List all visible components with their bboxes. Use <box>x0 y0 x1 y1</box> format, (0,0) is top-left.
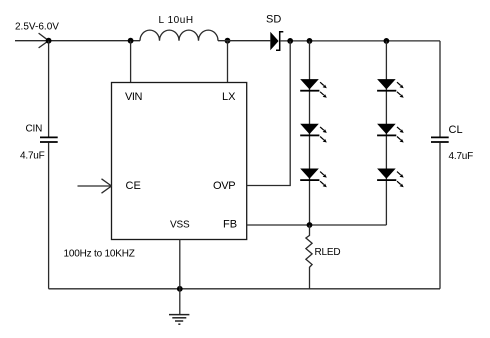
inductor L1 <box>140 30 218 41</box>
LED D1 <box>300 79 327 98</box>
diode SD <box>270 32 278 50</box>
ground <box>169 289 189 324</box>
wire VSS vertical <box>179 240 181 289</box>
svg-text:FB: FB <box>223 219 237 231</box>
svg-text:RLED: RLED <box>315 247 341 258</box>
wire top rail right <box>280 40 440 42</box>
svg-text:VIN: VIN <box>125 91 142 103</box>
node diode cathode junction <box>287 38 293 44</box>
CE arrow <box>102 179 112 193</box>
node LED string1 top junction <box>307 38 313 44</box>
svg-text:CE: CE <box>126 180 141 192</box>
node inductor right junction <box>225 38 231 44</box>
wire LX vertical <box>227 41 229 83</box>
wire right vertical upper <box>439 41 441 137</box>
node LED string2 top junction <box>384 38 390 44</box>
wire CE stub <box>78 185 112 187</box>
svg-text:100Hz to 10KHZ: 100Hz to 10KHZ <box>64 248 135 259</box>
wire OVP net <box>247 41 291 186</box>
svg-text:OVP: OVP <box>213 180 235 192</box>
wire top rail left <box>15 40 140 42</box>
wire bottom rail <box>49 288 440 290</box>
svg-text:CIN: CIN <box>26 123 43 134</box>
LED D4 <box>377 79 404 98</box>
wire LED string2 vertical <box>385 41 387 225</box>
svg-text:L 10uH: L 10uH <box>159 15 194 26</box>
capacitor CL <box>431 137 449 142</box>
LED D5 <box>377 124 404 143</box>
svg-text:CL: CL <box>449 124 463 136</box>
svg-text:LX: LX <box>222 91 236 103</box>
node inductor left junction <box>128 38 134 44</box>
wire top rail mid <box>218 40 270 42</box>
svg-text:2.5V-6.0V: 2.5V-6.0V <box>15 22 59 33</box>
input arrow <box>39 33 49 48</box>
wire left vertical upper <box>48 41 50 137</box>
svg-text:4.7uF: 4.7uF <box>20 151 45 162</box>
LED D2 <box>300 124 327 143</box>
LED D3 <box>300 169 327 188</box>
svg-text:4.7uF: 4.7uF <box>449 151 474 162</box>
wire LED string1 vertical <box>309 41 311 225</box>
wire VIN vertical <box>130 41 132 83</box>
resistor RLED <box>306 225 312 289</box>
LED D6 <box>377 169 404 188</box>
capacitor CIN <box>40 137 58 142</box>
node RLED junction <box>307 222 313 228</box>
wire right vertical lower <box>439 143 441 289</box>
op-amp U1 IC box <box>112 83 247 240</box>
wire left vertical lower <box>48 143 50 289</box>
node input junction <box>46 38 52 44</box>
wire FB rail <box>247 224 387 226</box>
svg-text:VSS: VSS <box>170 220 190 231</box>
node ground junction <box>177 286 183 292</box>
svg-text:SD: SD <box>266 14 281 26</box>
